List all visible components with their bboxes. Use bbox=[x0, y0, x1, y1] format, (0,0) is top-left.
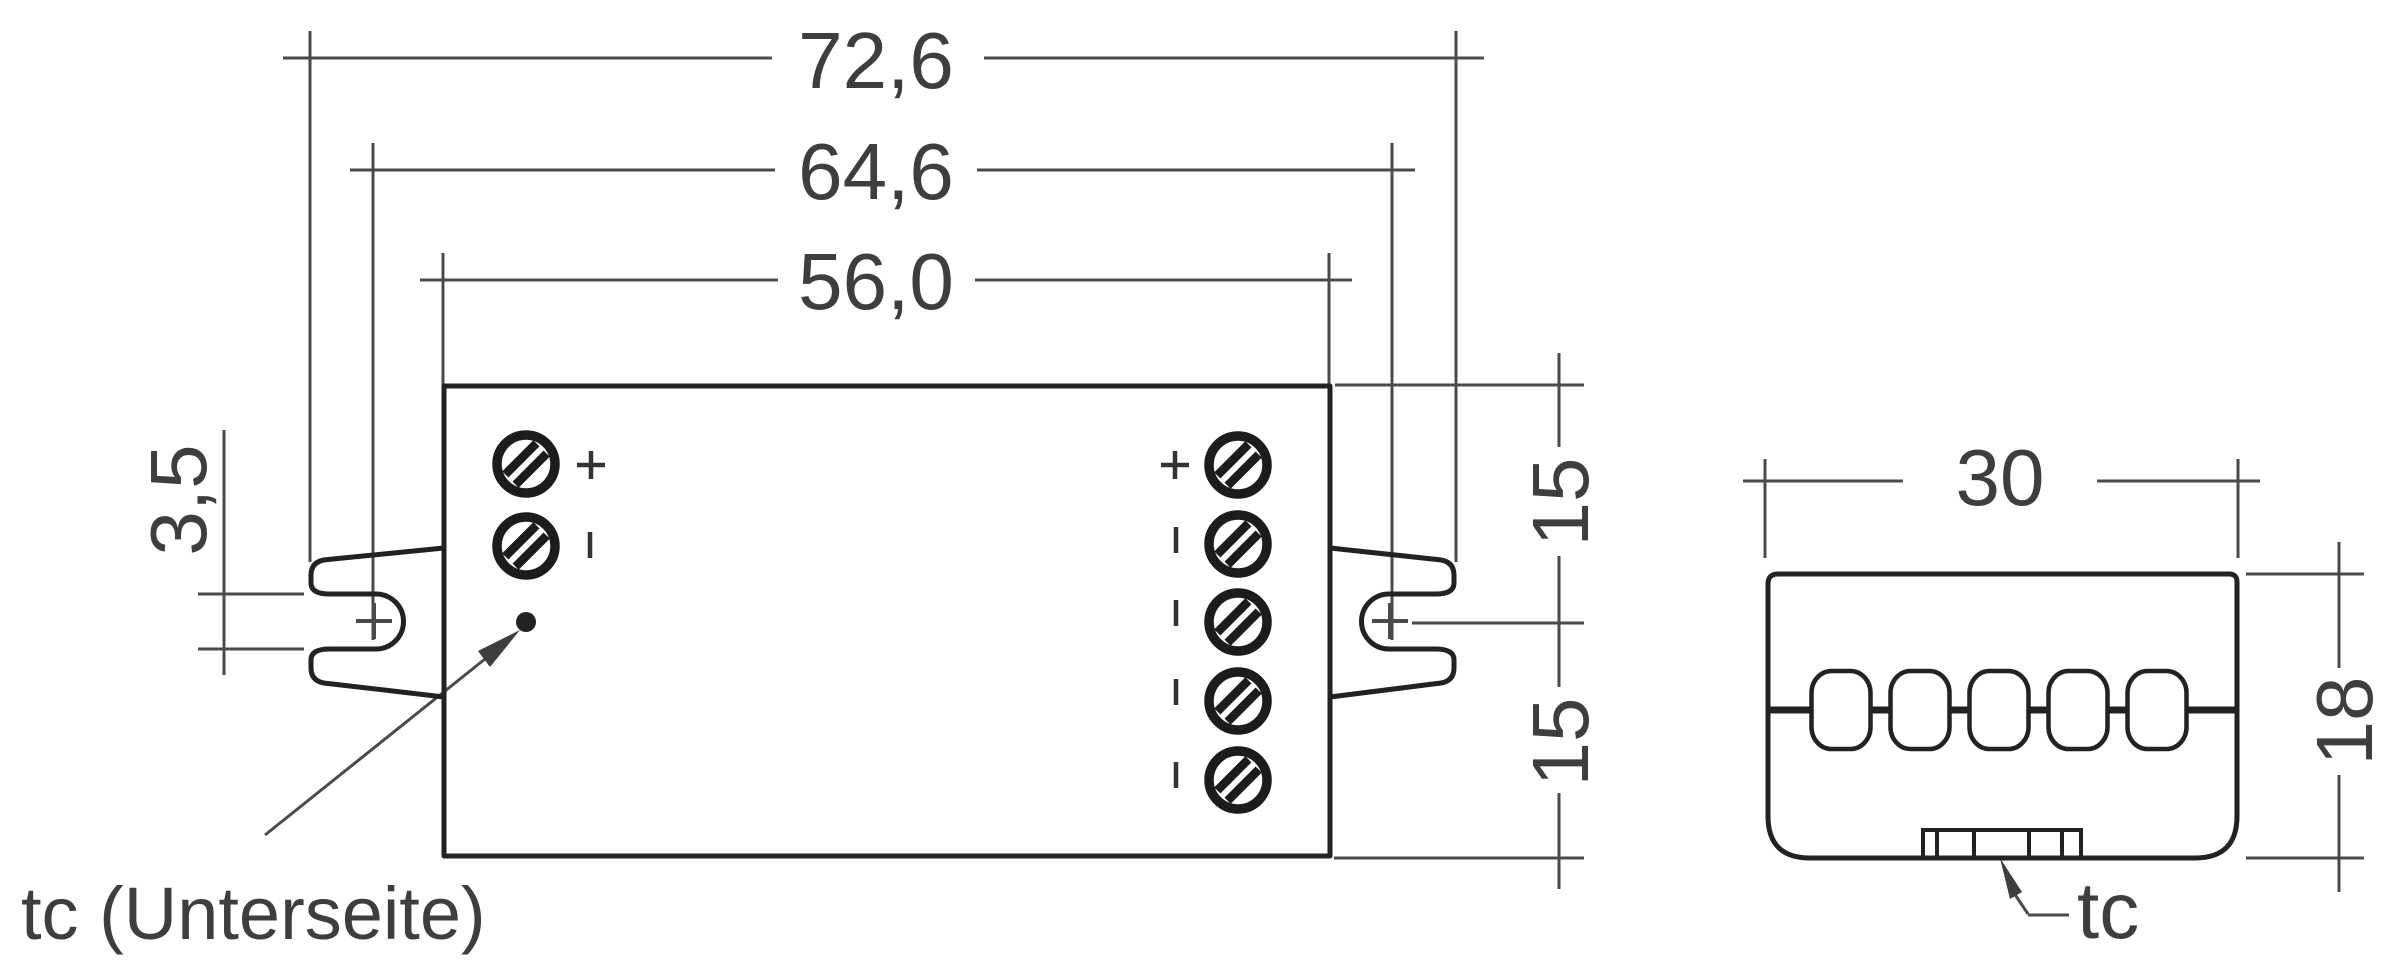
svg-text:3,5: 3,5 bbox=[134, 444, 223, 555]
svg-text:tc (Unterseite): tc (Unterseite) bbox=[21, 872, 486, 955]
svg-text:30: 30 bbox=[1956, 433, 2045, 522]
svg-text:18: 18 bbox=[2300, 677, 2389, 766]
svg-text:56,0: 56,0 bbox=[798, 237, 954, 326]
svg-text:15: 15 bbox=[1516, 698, 1605, 787]
svg-text:15: 15 bbox=[1516, 458, 1605, 547]
svg-text:tc: tc bbox=[2077, 866, 2139, 955]
svg-text:72,6: 72,6 bbox=[798, 16, 954, 105]
svg-text:64,6: 64,6 bbox=[798, 127, 954, 216]
